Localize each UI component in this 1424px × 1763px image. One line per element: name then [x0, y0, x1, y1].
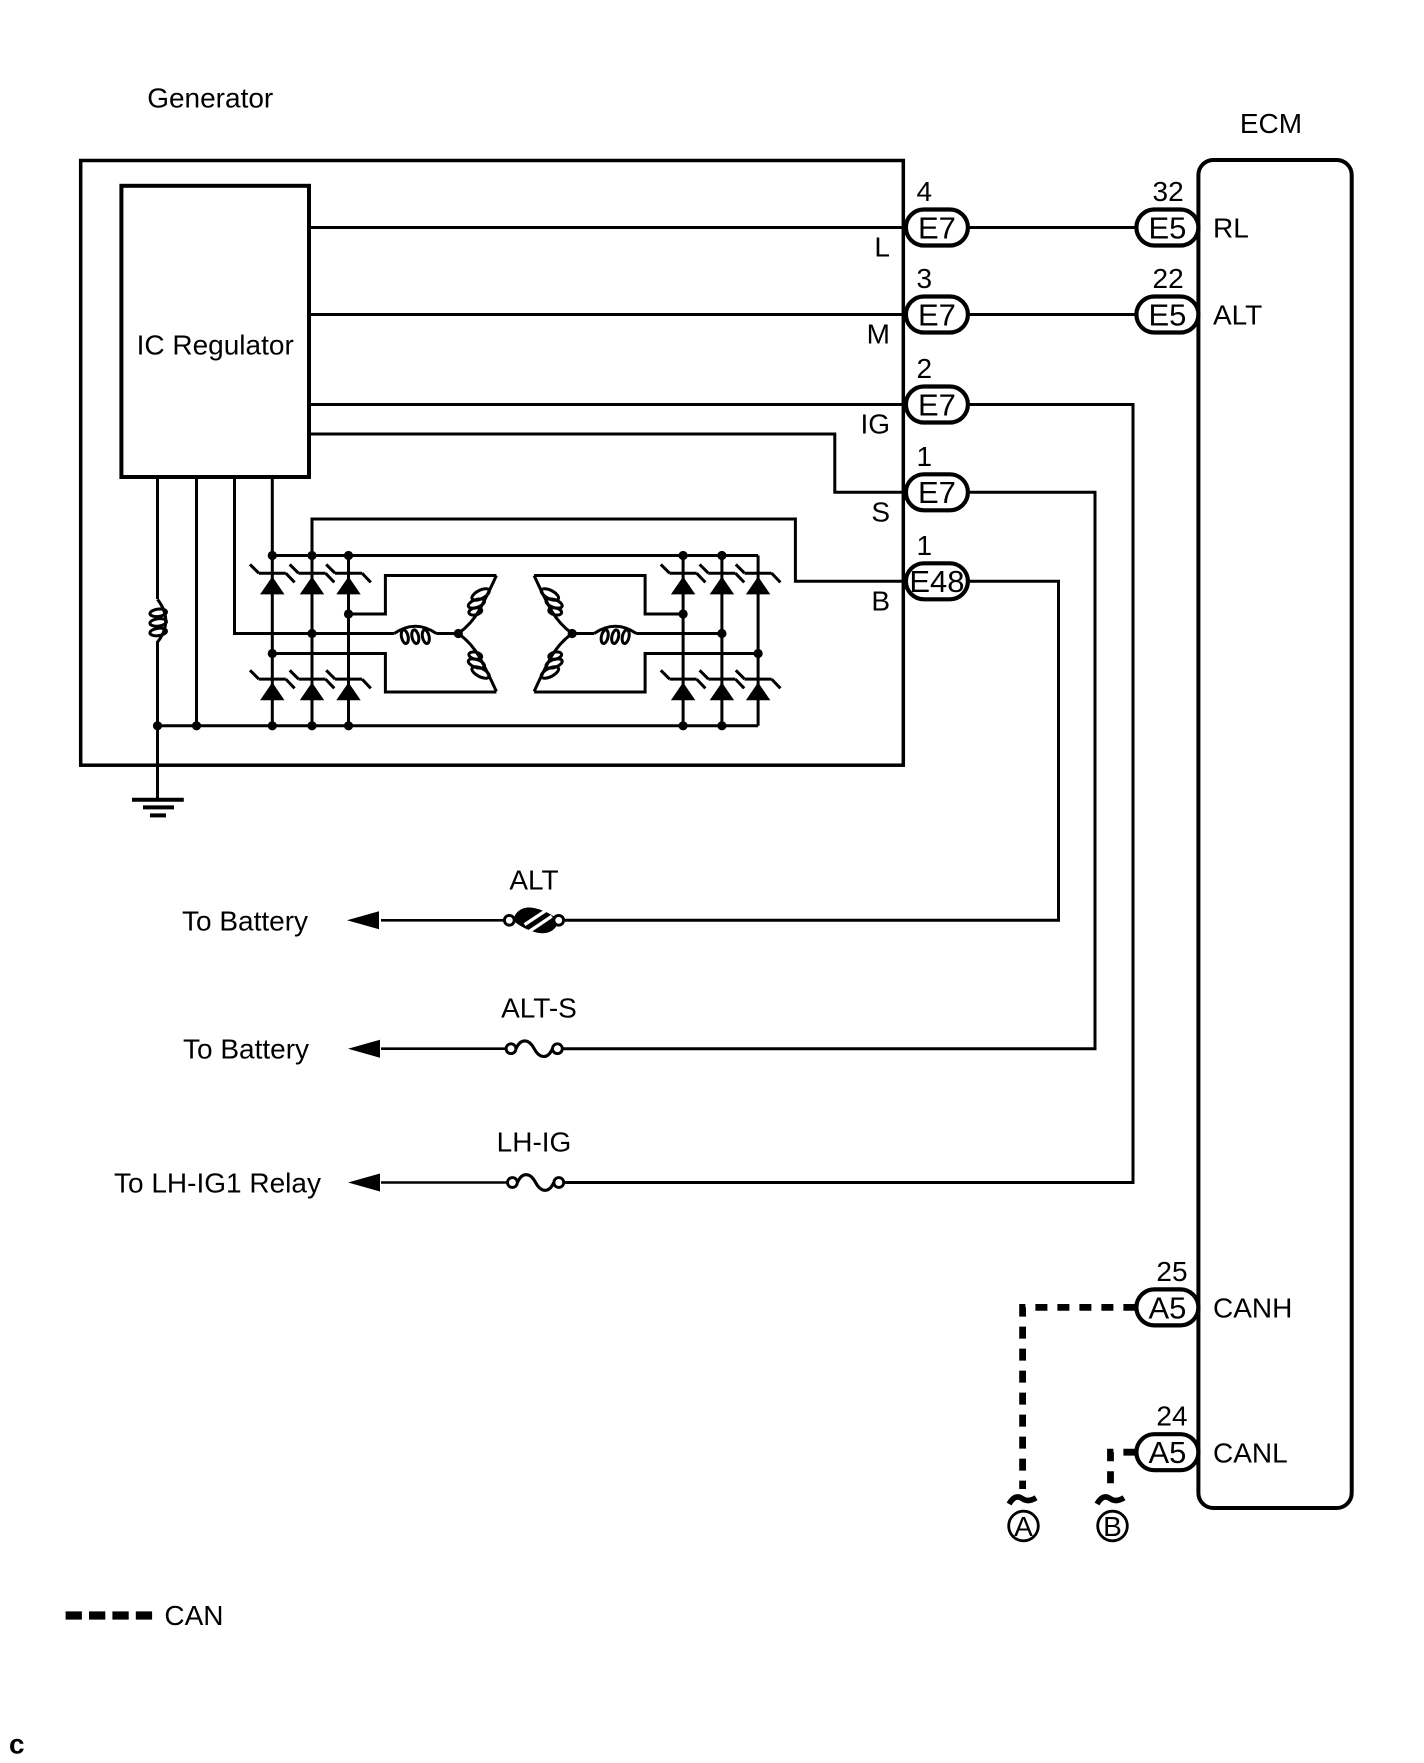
svg-text:ALT-S: ALT-S	[501, 993, 577, 1024]
connector E7 pin 2	[906, 387, 968, 423]
svg-text:A5: A5	[1148, 1435, 1186, 1470]
diode D6a (upper)	[736, 564, 781, 594]
connector E5 pin 32	[1136, 210, 1198, 246]
svg-text:E7: E7	[918, 210, 956, 245]
wire: right stator mid phase to right bridge column 2	[636, 632, 722, 635]
wire: rotor coil to ground bus	[156, 641, 159, 726]
svg-text:A5: A5	[1148, 1290, 1186, 1325]
svg-text:B: B	[871, 585, 890, 616]
legend CAN dashed sample	[66, 1611, 82, 1619]
diode D5b (lower)	[700, 670, 745, 700]
wire E7-3 to E5-22	[968, 313, 1137, 316]
junction lower phase right	[754, 649, 763, 658]
wire S: E7-1 to ALT-S fuse	[562, 492, 1095, 1048]
wire arrow to LH-IG fuse	[381, 1181, 508, 1184]
connector E7 pin 3	[906, 297, 968, 333]
junction upper phase left	[344, 609, 353, 618]
junction on ground bus	[153, 721, 162, 730]
svg-text:IG: IG	[860, 409, 890, 440]
svg-text:CANH: CANH	[1213, 1293, 1292, 1324]
svg-text:2: 2	[917, 353, 933, 384]
svg-text:E7: E7	[918, 297, 956, 332]
svg-text:E7: E7	[918, 387, 956, 422]
diode column 6 vertical	[757, 556, 760, 726]
svg-text:4: 4	[917, 176, 933, 207]
arrow to battery (ALT-S)	[348, 1040, 380, 1058]
junction mid phase right	[717, 629, 726, 638]
junction on ground bus	[192, 721, 201, 730]
svg-text:To LH-IG1 Relay: To LH-IG1 Relay	[114, 1168, 321, 1199]
diode column 4 vertical	[682, 556, 685, 726]
left stator winding	[272, 576, 496, 693]
svg-text:IC Regulator: IC Regulator	[137, 330, 294, 361]
IC regulator box	[121, 186, 309, 477]
rotor field coil	[150, 599, 167, 642]
wire L: regulator to E7 pin 4	[309, 226, 903, 229]
svg-text:1: 1	[917, 530, 933, 561]
diode D4a (upper)	[661, 564, 706, 594]
svg-text:ALT: ALT	[1213, 300, 1262, 331]
connector A5 pin 25	[1136, 1289, 1198, 1325]
plus bus (top)	[272, 554, 758, 557]
ECM box	[1198, 160, 1351, 1508]
svg-text:RL: RL	[1213, 213, 1249, 244]
junction on plus bus	[268, 551, 277, 560]
diode D1b (lower)	[250, 670, 295, 700]
CAN L dashed wire	[1111, 1452, 1136, 1489]
diode column 2 vertical	[311, 556, 314, 726]
wire: regulator to rotor coil	[156, 477, 159, 599]
diode D6b (lower)	[736, 670, 781, 700]
ground bus (bottom)	[158, 724, 759, 727]
node B circle	[1098, 1511, 1128, 1541]
junction on ground bus	[717, 721, 726, 730]
wire to ground	[156, 726, 159, 800]
arrow to battery (ALT)	[347, 911, 379, 929]
diode column 5 vertical	[720, 556, 723, 726]
svg-text:M: M	[867, 319, 890, 350]
svg-text:B: B	[1103, 1511, 1122, 1542]
wire B: E48-1 to ALT fusible link	[564, 581, 1059, 920]
diode D2b (lower)	[290, 670, 335, 700]
svg-text:E7: E7	[918, 475, 956, 510]
wire arrow to ALT link	[381, 919, 504, 922]
diode D5a (upper)	[700, 564, 745, 594]
svg-text:A: A	[1014, 1511, 1033, 1542]
wire IG: regulator to E7 pin 2	[309, 403, 903, 406]
junction on ground bus	[268, 721, 277, 730]
svg-text:3: 3	[917, 263, 933, 294]
diode column 3 vertical	[347, 556, 350, 726]
svg-text:To Battery: To Battery	[182, 905, 308, 936]
svg-text:Generator: Generator	[147, 83, 273, 114]
diode D3a (upper)	[326, 564, 371, 594]
node A circle	[1009, 1511, 1039, 1541]
wire M: regulator to E7 pin 3	[309, 313, 903, 316]
generator box	[81, 161, 904, 766]
break symbol A	[1009, 1497, 1036, 1504]
diode column 1 vertical	[271, 556, 274, 726]
right stator winding	[534, 576, 758, 693]
wire: regulator to left bridge column 1	[271, 477, 274, 556]
connector E7 pin 1	[906, 474, 968, 510]
wire arrow to ALT-S fuse	[381, 1047, 506, 1050]
wire: regulator pin 2 to ground bus	[195, 477, 198, 726]
fusible link ALT braid	[504, 907, 563, 933]
svg-text:CAN: CAN	[164, 1600, 223, 1631]
junction on ground bus	[307, 721, 316, 730]
svg-text:S: S	[871, 496, 890, 527]
connector E48 pin 1	[906, 563, 968, 599]
svg-text:32: 32	[1153, 176, 1184, 207]
CAN H dashed wire	[1023, 1307, 1136, 1489]
wire IG: E7-2 to LH-IG fuse	[564, 405, 1133, 1183]
junction on plus bus	[344, 551, 353, 560]
svg-text:25: 25	[1156, 1256, 1187, 1287]
diode D1a (upper)	[250, 564, 295, 594]
wire B: top bus to E48 pin 1	[312, 519, 903, 581]
connector A5 pin 24	[1136, 1434, 1198, 1470]
junction lower phase left	[268, 649, 277, 658]
svg-text:To Battery: To Battery	[183, 1034, 309, 1065]
svg-text:E5: E5	[1148, 297, 1186, 332]
diode D2a (upper)	[290, 564, 335, 594]
fuse ALT-S	[506, 1041, 562, 1057]
junction upper phase right	[679, 609, 688, 618]
junction mid phase left	[307, 629, 316, 638]
junction on plus bus	[717, 551, 726, 560]
diode D3b (lower)	[326, 670, 371, 700]
svg-text:24: 24	[1156, 1401, 1187, 1432]
svg-text:ALT: ALT	[509, 864, 558, 895]
wire: regulator to left stator mid phase	[235, 477, 395, 634]
break symbol B	[1097, 1497, 1124, 1504]
svg-text:CANL: CANL	[1213, 1437, 1288, 1468]
svg-text:c: c	[9, 1729, 25, 1760]
fuse LH-IG	[508, 1175, 564, 1191]
svg-text:1: 1	[917, 441, 933, 472]
junction on ground bus	[679, 721, 688, 730]
svg-text:LH-IG: LH-IG	[497, 1127, 572, 1158]
svg-text:E5: E5	[1148, 210, 1186, 245]
wire S: regulator to E7 pin 1	[309, 434, 903, 492]
arrow to LH-IG1 relay	[348, 1174, 380, 1192]
junction on plus bus	[679, 551, 688, 560]
diode D4b (lower)	[661, 670, 706, 700]
wire E7-4 to E5-32	[968, 226, 1137, 229]
svg-text:E48: E48	[909, 564, 964, 599]
junction on ground bus	[344, 721, 353, 730]
junction on plus bus	[307, 551, 316, 560]
connector E5 pin 22	[1136, 297, 1198, 333]
svg-text:ECM: ECM	[1240, 108, 1302, 139]
svg-text:L: L	[874, 232, 890, 263]
svg-text:22: 22	[1153, 263, 1184, 294]
connector E7 pin 4	[906, 210, 968, 246]
ground symbol	[132, 798, 184, 802]
